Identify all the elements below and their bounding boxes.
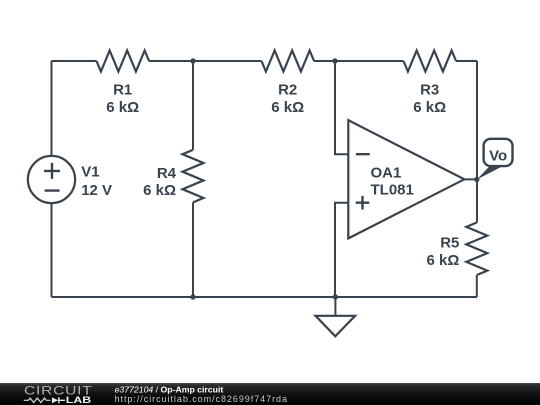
svg-text:6 kΩ: 6 kΩ: [106, 99, 139, 116]
CircuitLab logo: [24, 384, 93, 405]
ground: [334, 297, 336, 316]
wire: [456, 60, 477, 62]
wire: [52, 60, 97, 62]
resistor R1: [97, 51, 150, 72]
voltage source V1: [28, 156, 75, 203]
svg-text:Vo: Vo: [489, 147, 507, 164]
wire: [476, 61, 478, 223]
footer bar: [0, 383, 540, 405]
svg-text:R2: R2: [278, 82, 297, 99]
wire: [335, 203, 348, 297]
node junctions: [190, 58, 479, 299]
op-amp OA1: [348, 120, 464, 238]
svg-text:R1: R1: [113, 82, 132, 99]
svg-text:6 kΩ: 6 kΩ: [413, 99, 446, 116]
wire: [335, 61, 348, 154]
svg-text:LAB: LAB: [66, 394, 92, 405]
svg-text:http://circuitlab.com/c82699f7: http://circuitlab.com/c82699f747rda: [115, 394, 288, 404]
node R4-bottom: [190, 294, 195, 299]
svg-text:6 kΩ: 6 kΩ: [427, 252, 460, 269]
svg-text:TL081: TL081: [371, 182, 414, 199]
wire: [52, 296, 478, 298]
node ground: [333, 294, 338, 299]
resistor R3: [404, 51, 457, 72]
svg-text:R5: R5: [440, 235, 459, 252]
node output Vo: [474, 177, 479, 182]
svg-text:6 kΩ: 6 kΩ: [271, 99, 304, 116]
svg-text:R3: R3: [420, 82, 439, 99]
svg-text:V1: V1: [81, 164, 99, 181]
wire: [149, 60, 261, 62]
wire: [51, 61, 53, 156]
node R1-R4: [190, 58, 195, 63]
svg-text:6 kΩ: 6 kΩ: [143, 182, 176, 199]
wire: [192, 202, 194, 297]
svg-text:R4: R4: [157, 165, 177, 182]
wire: [476, 275, 478, 297]
resistor R4: [183, 150, 204, 203]
node R2-opamp: [332, 58, 337, 63]
wire: [464, 178, 477, 180]
Vo flag: [477, 139, 513, 180]
svg-text:12 V: 12 V: [81, 182, 112, 199]
wire: [314, 60, 403, 62]
wire: [51, 203, 53, 297]
wire: [192, 61, 194, 150]
svg-text:OA1: OA1: [371, 164, 402, 181]
resistor R5: [466, 223, 487, 276]
resistor R2: [262, 51, 315, 72]
